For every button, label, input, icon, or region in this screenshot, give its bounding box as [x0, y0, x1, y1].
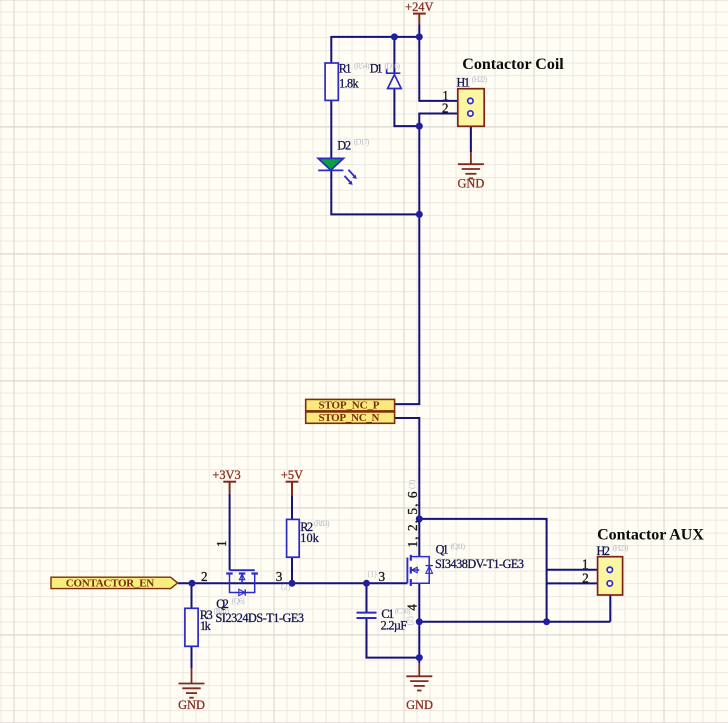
svg-text:Q2: Q2	[216, 597, 229, 611]
svg-text:STOP_NC_N: STOP_NC_N	[319, 412, 380, 424]
svg-text:SI3438DV-T1-GE3: SI3438DV-T1-GE3	[435, 557, 524, 571]
svg-text:(D17): (D17)	[354, 137, 370, 146]
svg-text:H1: H1	[457, 75, 471, 89]
svg-text:2: 2	[582, 571, 589, 586]
svg-text:2.2µF: 2.2µF	[381, 618, 408, 632]
svg-text:Q1: Q1	[436, 542, 449, 556]
svg-text:(H22): (H22)	[472, 75, 488, 84]
svg-text:1: 1	[214, 540, 229, 547]
svg-text:1, 2, 5, 6: 1, 2, 5, 6	[405, 491, 420, 547]
svg-text:(R83): (R83)	[314, 519, 330, 528]
svg-text:10k: 10k	[300, 531, 319, 545]
svg-text:1.8k: 1.8k	[339, 77, 359, 91]
svg-text:(3): (3)	[408, 479, 417, 489]
svg-text:R1: R1	[339, 62, 352, 76]
svg-text:D2: D2	[337, 138, 351, 152]
svg-text:1k: 1k	[200, 619, 212, 633]
svg-text:GND: GND	[178, 698, 205, 712]
svg-text:(2): (2)	[406, 616, 415, 626]
svg-text:(Q11): (Q11)	[451, 542, 466, 551]
svg-text:Contactor AUX: Contactor AUX	[597, 527, 704, 544]
svg-text:(R54): (R54)	[354, 61, 370, 70]
svg-text:4: 4	[404, 604, 419, 611]
svg-text:D1: D1	[370, 62, 383, 76]
svg-text:CONTACTOR_EN: CONTACTOR_EN	[66, 577, 155, 589]
svg-text:1: 1	[582, 556, 589, 571]
svg-text:+3V3: +3V3	[212, 468, 240, 482]
svg-text:(2): (2)	[281, 583, 291, 592]
svg-text:STOP_NC_P: STOP_NC_P	[319, 400, 380, 412]
svg-text:+5V: +5V	[281, 468, 303, 482]
svg-text:(1): (1)	[368, 569, 378, 578]
svg-text:Contactor Coil: Contactor Coil	[462, 56, 564, 73]
svg-text:2: 2	[201, 569, 208, 584]
svg-text:H2: H2	[597, 544, 611, 558]
svg-text:2: 2	[442, 100, 449, 115]
svg-text:GND: GND	[457, 177, 484, 191]
svg-text:3: 3	[379, 569, 386, 584]
svg-text:(H23): (H23)	[613, 543, 629, 552]
svg-text:GND: GND	[406, 698, 433, 712]
svg-text:(Q6): (Q6)	[232, 597, 245, 606]
svg-text:(D16): (D16)	[385, 61, 401, 70]
svg-text:SI2324DS-T1-GE3: SI2324DS-T1-GE3	[216, 611, 305, 625]
svg-text:+24V: +24V	[405, 0, 433, 14]
